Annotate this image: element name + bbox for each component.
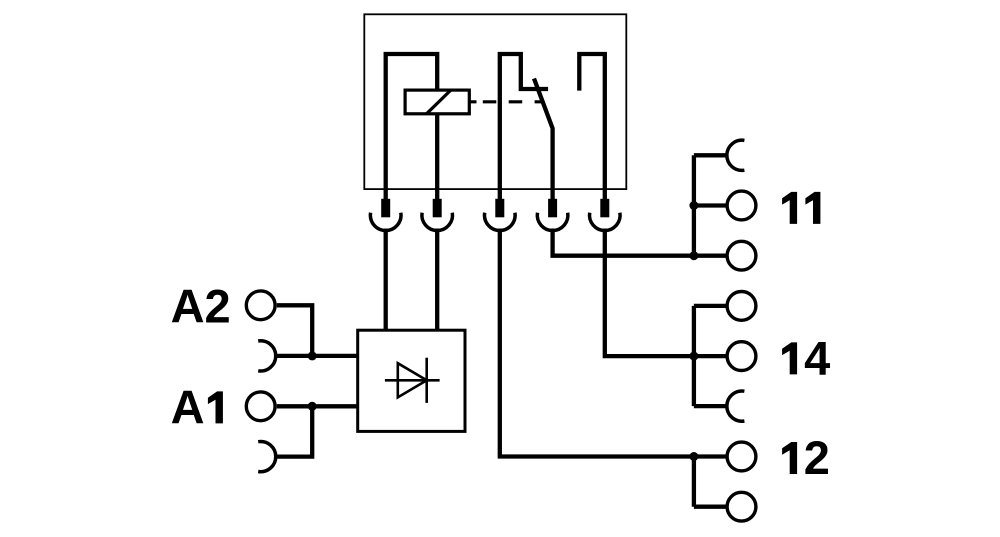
plug contact 1 pin — [381, 199, 390, 218]
wire pin3 up and over to fixed contact — [500, 54, 548, 200]
plug contact 4 pin — [548, 199, 557, 218]
wire A2 circle to junction — [277, 305, 312, 356]
label 12 — [782, 431, 830, 484]
wire stub to 11 bottom circle — [694, 254, 727, 258]
diode horizontal lead — [385, 379, 440, 382]
junction dot 11 middle — [689, 201, 698, 210]
wire plug3 to terminal 12 group — [500, 229, 694, 457]
terminal socket arc 11 top — [727, 140, 745, 170]
wire A2 junction to suppressor box — [312, 354, 358, 358]
relay module outline box — [364, 14, 626, 189]
junction dot 11 bottom — [689, 251, 698, 260]
plug contact 5 socket arc — [590, 213, 621, 231]
wire A1 junction down to lower arc — [275, 406, 312, 456]
terminal 12 group vertical wire — [692, 457, 696, 507]
label A2 — [171, 280, 231, 333]
diode cathode bar — [425, 358, 428, 403]
wire A2 arc stub — [275, 354, 312, 358]
wire plug5 to terminal 14 group — [605, 229, 694, 357]
svg-text:4: 4 — [804, 331, 830, 384]
label A1 — [171, 380, 223, 433]
plug contact 1 socket arc — [370, 213, 401, 231]
terminal socket arc 14 bottom — [727, 391, 745, 421]
junction dot 14 middle — [689, 352, 698, 361]
wire stub to 12 top circle — [694, 454, 727, 458]
relay coil — [405, 90, 469, 114]
diode triangle — [398, 363, 427, 397]
plug contact 4 socket arc — [537, 213, 568, 231]
svg-text:2: 2 — [804, 431, 830, 484]
plug contact 2 pin — [433, 199, 442, 218]
wire coil bottom to pin2 — [435, 114, 439, 200]
suppressor diode box — [358, 330, 465, 431]
svg-text:A2: A2 — [171, 280, 231, 333]
terminal circle 12 bottom — [727, 492, 756, 521]
plug contact 3 socket arc — [485, 213, 516, 231]
wire stub to 12 bottom circle — [694, 505, 727, 509]
wire coil branch left (pin1 up and over to coil top) — [386, 54, 438, 200]
terminal socket arc below A1 — [258, 442, 276, 472]
terminal socket arc below A2 — [258, 341, 276, 371]
terminal 11 group vertical wire — [692, 155, 696, 255]
switch moving arm (NO contact) — [534, 79, 553, 201]
label 14 — [782, 331, 830, 384]
wire stub to 11 middle circle — [694, 203, 727, 207]
wire plug1 to suppressor box — [384, 229, 388, 331]
terminal 14 group vertical wire — [692, 306, 696, 406]
terminal circle A2 — [246, 291, 275, 320]
terminal circle 11 bottom — [727, 241, 756, 270]
junction dot A2 — [308, 351, 317, 360]
plug contact 5 pin — [600, 199, 609, 218]
plug contact 2 socket arc — [422, 213, 453, 231]
terminal circle 14 middle — [727, 342, 756, 371]
wire A1 circle to suppressor box — [277, 404, 358, 408]
dashed mechanical link — [470, 100, 541, 103]
wire stub to 14 middle circle — [694, 354, 727, 358]
wire plug2 to suppressor box — [435, 229, 439, 331]
wire stub to 14 top circle — [694, 304, 727, 308]
terminal circle 12 top — [727, 442, 756, 471]
wire stub to 11 arc — [694, 153, 727, 157]
terminal circle A1 — [246, 392, 275, 421]
plug contact 3 pin — [495, 199, 504, 218]
terminal circle 11 middle — [727, 191, 756, 220]
open contact stub and wire to pin5 — [579, 54, 605, 200]
wire stub to 14 bottom arc — [694, 404, 727, 408]
junction dot A1 — [308, 402, 317, 411]
terminal circle 14 top — [727, 292, 756, 321]
label 11 — [782, 192, 820, 224]
junction dot 12 top — [689, 452, 698, 461]
wire plug4 to terminal 11 group — [553, 229, 694, 256]
svg-text:A: A — [171, 380, 205, 433]
